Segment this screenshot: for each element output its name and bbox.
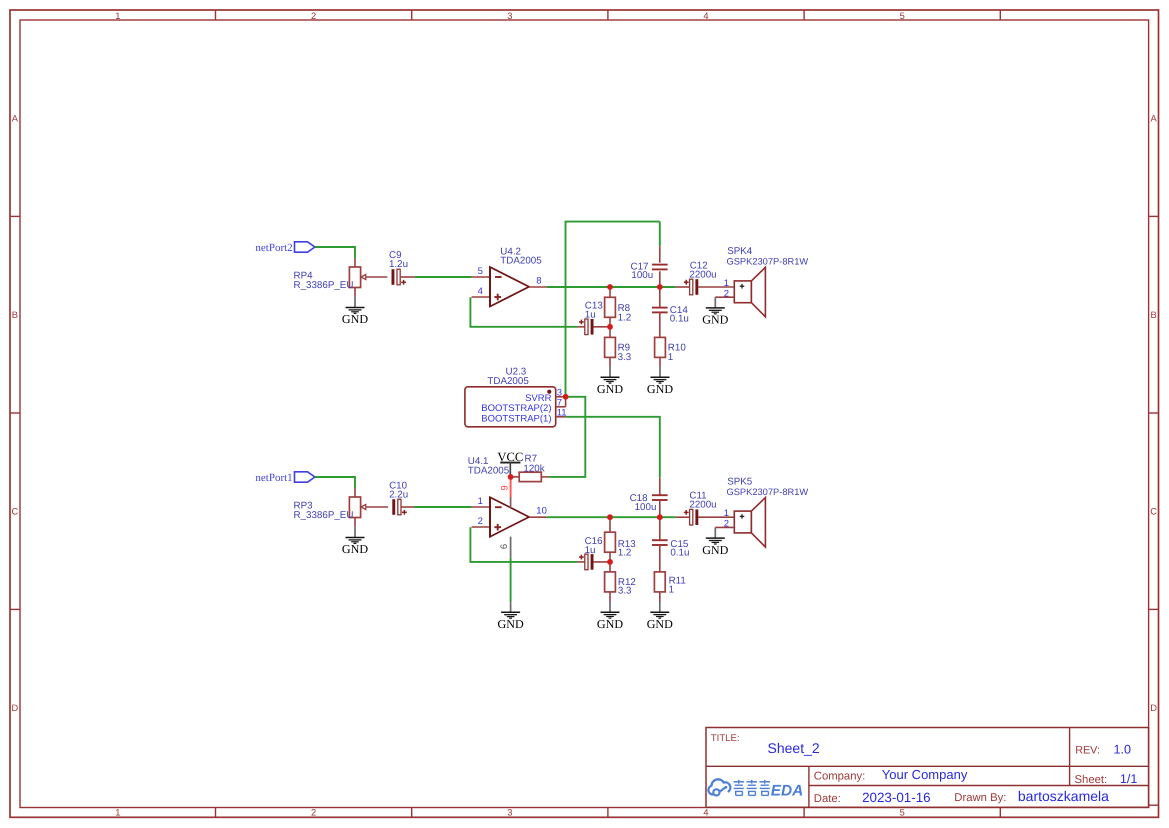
svg-text:120k: 120k xyxy=(523,463,544,474)
capacitor C17 xyxy=(631,222,668,287)
svg-text:D: D xyxy=(1150,703,1157,713)
ground (R11) xyxy=(647,602,673,631)
svg-text:1.2: 1.2 xyxy=(618,312,632,323)
svg-text:4: 4 xyxy=(703,11,708,21)
ground (R10) xyxy=(647,367,673,396)
capacitor C18 xyxy=(630,478,668,517)
svg-text:Drawn By:: Drawn By: xyxy=(954,792,1006,804)
wire (output row) xyxy=(547,516,676,518)
svg-text:4: 4 xyxy=(703,808,708,818)
ground (SPK5) xyxy=(702,527,728,556)
node junction xyxy=(657,514,663,520)
svg-text:3.3: 3.3 xyxy=(618,352,632,363)
title block xyxy=(706,728,1149,808)
svg-text:2200u: 2200u xyxy=(689,270,716,281)
svg-text:GSPK2307P-8R1W: GSPK2307P-8R1W xyxy=(727,257,809,267)
svg-text:2200u: 2200u xyxy=(689,500,716,511)
svg-text:5: 5 xyxy=(900,11,905,21)
resistor R12 xyxy=(605,562,636,602)
svg-text:1: 1 xyxy=(669,585,674,596)
svg-text:1: 1 xyxy=(115,808,120,818)
capacitor C10 xyxy=(389,481,414,515)
ground (U4.1 pin6) xyxy=(497,602,523,631)
capacitor C9 xyxy=(389,250,415,285)
ground (R9) xyxy=(597,367,623,396)
svg-text:0.1u: 0.1u xyxy=(670,548,689,559)
wire (pin3 to R7 column) xyxy=(549,397,585,477)
wire (SPK5 pin2) xyxy=(715,526,734,528)
svg-text:R_3386P_EU: R_3386P_EU xyxy=(294,510,354,521)
svg-text:1.2u: 1.2u xyxy=(389,259,408,270)
svg-text:Sheet_2: Sheet_2 xyxy=(768,740,820,756)
svg-text:10: 10 xyxy=(536,506,547,517)
node junction xyxy=(563,394,569,400)
node junction (VCC) xyxy=(508,474,514,480)
wire xyxy=(414,506,471,508)
potentiometer RP4 xyxy=(294,258,388,297)
svg-text:GSPK2307P-8R1W: GSPK2307P-8R1W xyxy=(727,487,809,497)
svg-text:3: 3 xyxy=(507,808,512,818)
svg-text:B: B xyxy=(12,310,18,320)
svg-text:GND: GND xyxy=(342,312,368,326)
svg-text:5: 5 xyxy=(478,266,483,277)
wire (pin11 to C18) xyxy=(566,417,660,478)
speaker SPK4 xyxy=(724,246,809,317)
svg-text:1.2: 1.2 xyxy=(618,548,632,559)
svg-text:C: C xyxy=(12,507,19,517)
svg-text:TDA2005: TDA2005 xyxy=(468,465,510,476)
svg-text:GND: GND xyxy=(597,382,623,396)
ground (SPK4) xyxy=(702,297,728,326)
resistor R7 xyxy=(511,453,550,481)
svg-text:1: 1 xyxy=(115,11,120,21)
svg-text:Sheet:: Sheet: xyxy=(1075,774,1108,786)
svg-text:C: C xyxy=(1150,507,1157,517)
svg-text:bartoszkamela: bartoszkamela xyxy=(1018,788,1109,804)
svg-text:1/1: 1/1 xyxy=(1120,772,1138,786)
wire (feedback loop pin4) xyxy=(470,297,577,327)
logo xyxy=(708,779,803,799)
svg-text:5: 5 xyxy=(900,808,905,818)
svg-text:B: B xyxy=(1150,310,1156,320)
svg-text:2: 2 xyxy=(311,808,316,818)
svg-text:TDA2005: TDA2005 xyxy=(487,376,529,387)
svg-text:1: 1 xyxy=(668,352,673,363)
svg-text:1u: 1u xyxy=(585,310,596,321)
ground (R12) xyxy=(597,602,623,631)
svg-text:1.0: 1.0 xyxy=(1114,742,1132,756)
node junction xyxy=(657,284,663,290)
svg-text:netPort1: netPort1 xyxy=(255,472,292,484)
svg-text:9: 9 xyxy=(500,485,511,490)
svg-text:SPK5: SPK5 xyxy=(727,477,753,488)
svg-text:1: 1 xyxy=(478,496,483,507)
resistor R9 xyxy=(605,327,632,367)
svg-text:A: A xyxy=(12,114,19,124)
resistor R11 xyxy=(654,572,685,602)
svg-text:3: 3 xyxy=(507,11,512,21)
svg-text:GND: GND xyxy=(702,543,728,557)
node junction xyxy=(607,559,613,565)
svg-text:REV:: REV: xyxy=(1075,745,1100,757)
node junction xyxy=(607,324,613,330)
potentiometer RP3 xyxy=(294,488,389,527)
capacitor C16 xyxy=(577,536,610,570)
svg-text:GND: GND xyxy=(702,313,728,327)
svg-text:4: 4 xyxy=(478,286,483,297)
resistor R10 xyxy=(655,337,687,366)
capacitor C13 xyxy=(577,300,610,334)
svg-text:GND: GND xyxy=(342,542,368,556)
svg-text:GND: GND xyxy=(647,382,673,396)
resistor R8 xyxy=(605,287,632,327)
wire (pin6 to ground) xyxy=(510,557,512,601)
svg-text:GND: GND xyxy=(647,617,673,631)
svg-text:SPK4: SPK4 xyxy=(727,246,753,257)
svg-text:2: 2 xyxy=(311,11,316,21)
svg-text:GND: GND xyxy=(497,617,523,631)
op-amp U4.1 xyxy=(468,456,547,557)
svg-text:100u: 100u xyxy=(631,270,653,281)
svg-text:R_3386P_EU: R_3386P_EU xyxy=(294,280,354,291)
svg-text:2023-01-16: 2023-01-16 xyxy=(862,790,931,805)
resistor R13 xyxy=(605,517,637,562)
wire (output row) xyxy=(547,286,676,288)
svg-text:1u: 1u xyxy=(585,545,596,556)
node junction xyxy=(607,514,613,520)
port netPort1 xyxy=(255,472,314,484)
capacitor C15 xyxy=(652,517,689,572)
svg-text:3.3: 3.3 xyxy=(618,586,632,597)
svg-text:Date:: Date: xyxy=(814,793,841,805)
svg-text:A: A xyxy=(1150,114,1157,124)
svg-text:Company:: Company: xyxy=(814,770,866,782)
power VCC xyxy=(497,450,523,477)
svg-text:TITLE:: TITLE: xyxy=(711,733,740,744)
port netPort2 xyxy=(255,242,314,254)
capacitor C14 xyxy=(652,287,689,337)
svg-text:GND: GND xyxy=(597,617,623,631)
wire xyxy=(415,276,472,278)
svg-text:6: 6 xyxy=(499,544,510,549)
svg-text:2.2u: 2.2u xyxy=(389,490,408,501)
ground (RP3) xyxy=(342,527,368,556)
speaker SPK5 xyxy=(724,477,809,547)
svg-text:Your Company: Your Company xyxy=(882,767,968,782)
wire (SPK4 pin2) xyxy=(715,296,734,298)
svg-text:2: 2 xyxy=(478,516,483,527)
svg-text:TDA2005: TDA2005 xyxy=(500,256,542,267)
svg-text:EDA: EDA xyxy=(771,782,804,799)
svg-text:100u: 100u xyxy=(635,502,657,513)
capacitor C12 xyxy=(676,261,735,295)
svg-text:netPort2: netPort2 xyxy=(255,242,292,254)
svg-text:0.1u: 0.1u xyxy=(670,314,689,325)
wire xyxy=(315,247,355,258)
svg-text:BOOTSTRAP(1): BOOTSTRAP(1) xyxy=(481,413,551,424)
wire xyxy=(315,477,355,488)
op-amp U2.3 (power block) xyxy=(465,367,567,427)
op-amp U4.2 xyxy=(472,246,547,307)
ground (RP4) xyxy=(342,297,368,326)
wire (SVRR node vertical) xyxy=(566,222,660,397)
svg-text:8: 8 xyxy=(536,276,541,287)
node junction xyxy=(607,284,613,290)
wire (feedback loop pin2) xyxy=(470,527,577,562)
capacitor C11 xyxy=(676,491,735,525)
svg-text:D: D xyxy=(12,703,19,713)
